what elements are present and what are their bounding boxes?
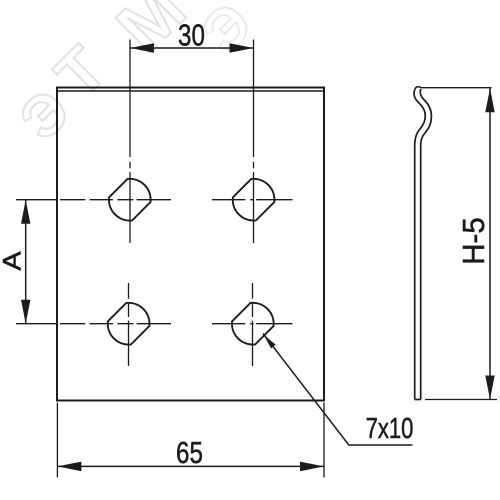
watermark ETM [7,0,264,153]
hole slot top-left 7x10 [109,179,151,221]
extension line 65 right [323,403,325,478]
hole slot bottom-left 7x10 [108,303,150,345]
dimension line H-5 [489,88,491,400]
dimension line 30 [130,47,254,49]
svg-text:65: 65 [176,435,203,470]
arrow dimH5 up [485,88,494,112]
arrow dim65 left [57,462,81,472]
arrow dim30 right [230,43,254,53]
svg-text:H-5: H-5 [457,217,491,264]
hole slot top-right 7x10 [233,179,275,221]
arrow dimA down [21,300,30,324]
centerline vertical hole column 1 (extension for dim 30) [129,40,131,244]
svg-text:A: A [0,251,26,270]
side view top tip cap [415,87,421,90]
extension line 65 left [56,403,58,478]
side view left face line [414,89,425,399]
arrow dim30 left [130,43,154,53]
svg-text:7x10: 7x10 [366,413,414,445]
centerline horizontal top-left hole (extension for dim A) [16,199,171,201]
arrow leader 7x10 [264,335,276,349]
arrow dimH5 down [485,376,494,400]
centerline horizontal bottom-right hole [212,323,293,325]
hole slot bottom-right 7x10 [232,303,274,345]
centerline vertical bottom-left hole [128,283,130,366]
fold edge line [57,90,324,92]
centerline vertical hole column 2 (extension for dim 30) [253,40,255,244]
H-5 top boundary line [421,87,492,89]
dimension line 65 [57,465,324,467]
arrow dimA up [21,200,30,224]
dimension line A [25,200,27,324]
H-5 bottom boundary line [425,399,497,401]
plate outline front view [57,88,324,401]
arrow dim65 right [300,462,324,472]
centerline vertical bottom-right hole [252,283,254,366]
svg-text:30: 30 [178,18,205,53]
side view bottom edge [415,399,421,401]
side view right face line [420,89,431,400]
centerline horizontal bottom-left hole (extension for dim A) [16,323,171,325]
centerline horizontal top-right hole [212,199,293,201]
leader line 7x10 [263,334,413,446]
